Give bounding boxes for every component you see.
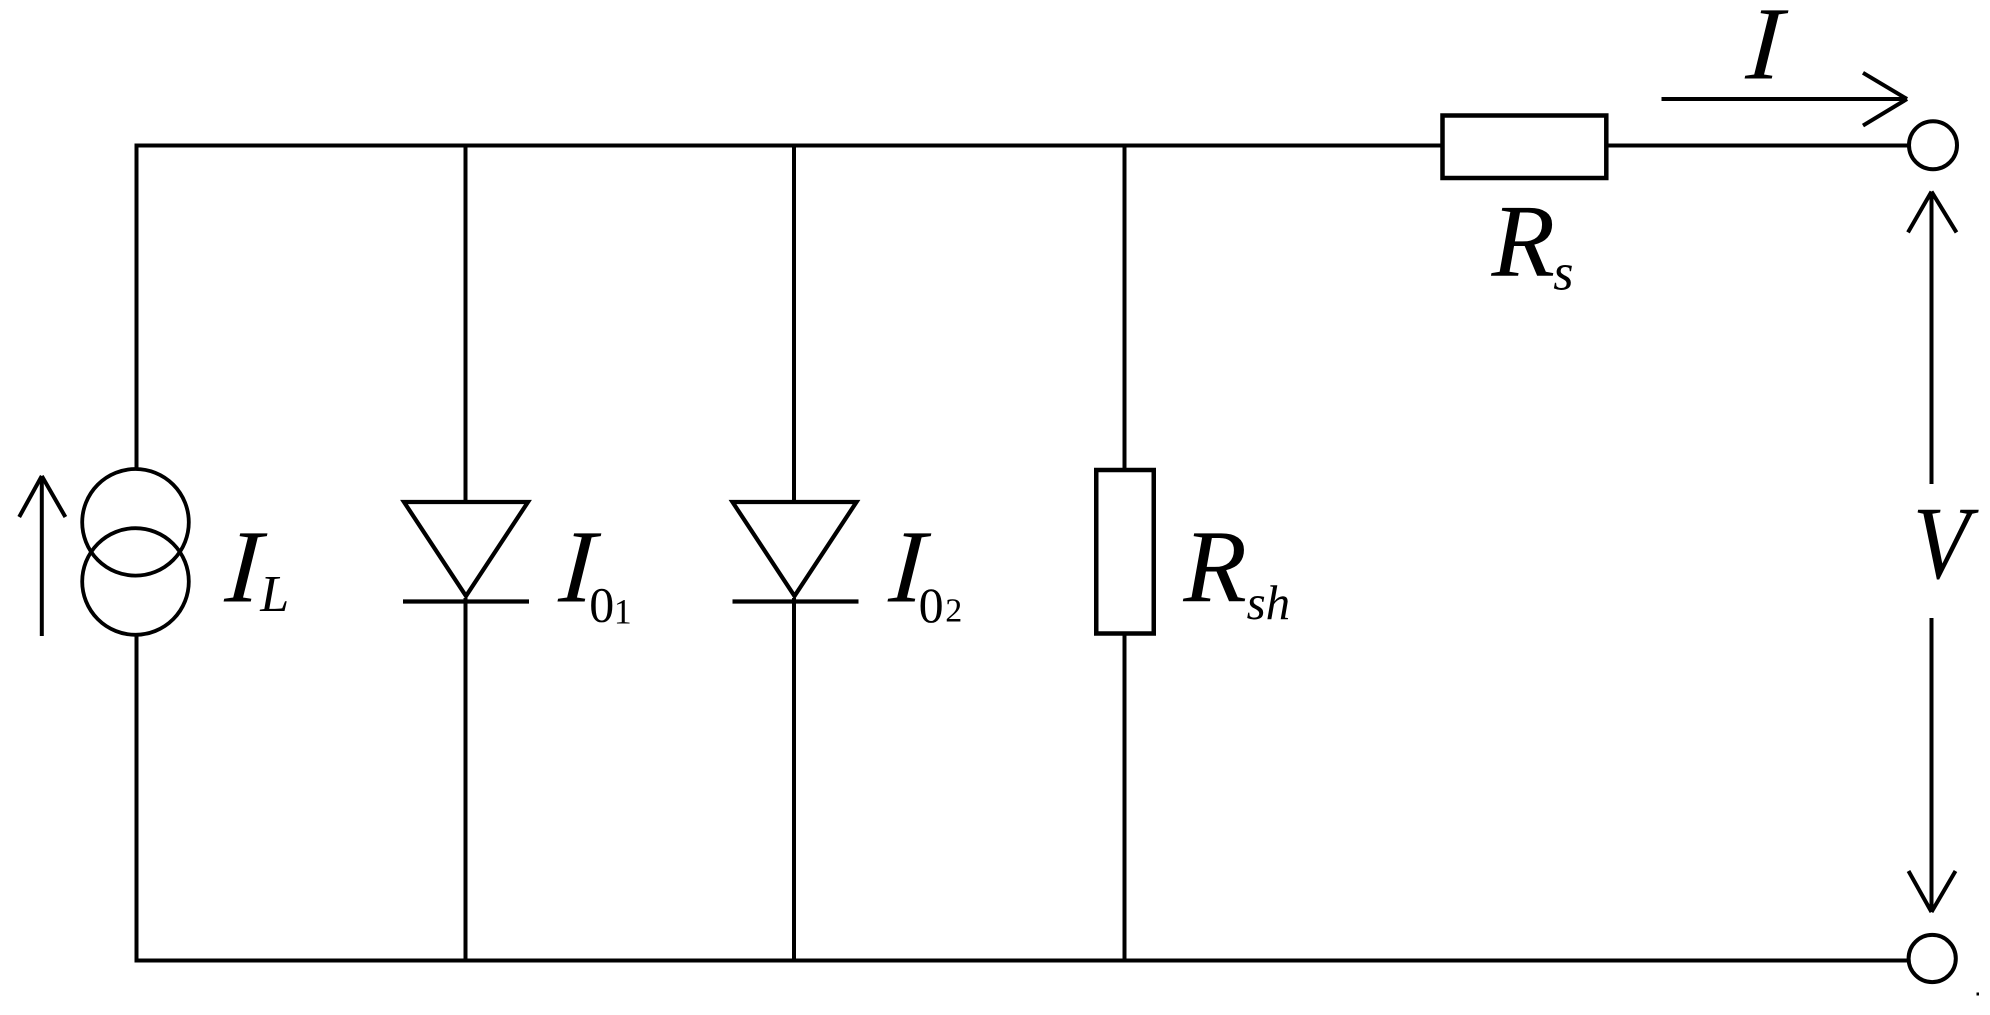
svg-text:1: 1: [614, 591, 632, 631]
svg-text:0: 0: [919, 577, 944, 633]
svg-text:2: 2: [945, 592, 962, 629]
svg-text:V: V: [1913, 486, 1979, 601]
svg-text:s: s: [1553, 245, 1573, 302]
svg-text:L: L: [259, 566, 289, 623]
svg-text:sh: sh: [1247, 575, 1291, 630]
svg-text:R: R: [1491, 184, 1556, 299]
svg-text:0: 0: [589, 576, 614, 632]
svg-text:R: R: [1182, 510, 1247, 625]
